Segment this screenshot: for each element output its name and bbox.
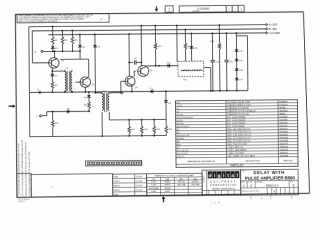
svg-text:DESCRIPTION: DESCRIPTION <box>245 161 260 163</box>
svg-text:B560-0-1: B560-0-1 <box>266 183 279 187</box>
svg-text:DEC-36: DEC-36 <box>178 181 185 183</box>
svg-text:C,N GND: C,N GND <box>269 31 280 35</box>
svg-text:PRINTED CIRCUIT REV.: PRINTED CIRCUIT REV. <box>242 191 261 193</box>
svg-text:DEC: DEC <box>179 179 184 181</box>
svg-text:C13-C5: C13-C5 <box>177 156 185 158</box>
svg-text:1000007: 1000007 <box>280 152 289 154</box>
svg-text:1001023: 1001023 <box>280 149 289 151</box>
svg-text:5-18-64: 5-18-64 <box>136 176 143 178</box>
svg-text:3609B: 3609B <box>279 107 286 109</box>
svg-text:D-662: D-662 <box>151 191 156 193</box>
svg-text:ISS'D: ISS'D <box>114 194 120 196</box>
svg-text:D-664: D-664 <box>151 182 156 184</box>
svg-text:REPRODUCED OR COPIED OR USED I: REPRODUCED OR COPIED OR USED IN WHOLE OR… <box>24 141 27 195</box>
svg-text:3686Q: 3686Q <box>279 113 286 115</box>
svg-text:2: 2 <box>61 89 62 91</box>
svg-text:0100377: 0100377 <box>280 143 289 145</box>
svg-text:DIO. D-003 IN3653: DIO. D-003 IN3653 <box>227 120 246 122</box>
svg-text:J: J <box>124 91 125 93</box>
svg-text:SIZE: SIZE <box>241 182 244 184</box>
svg-text:REFERENCE DESIGNATION: REFERENCE DESIGNATION <box>187 160 215 163</box>
svg-text:5-19-64: 5-19-64 <box>136 181 143 183</box>
svg-text:l: l <box>237 173 238 179</box>
svg-text:0100350: 0100350 <box>279 134 288 136</box>
svg-text:R3,R5,R7,R9: R3,R5,R7,R9 <box>177 135 191 137</box>
svg-text:COND. MFD .01: COND. MFD .01 <box>227 147 244 149</box>
svg-text:D11,D14-D17: D11,D14-D17 <box>177 126 191 128</box>
svg-text:C6,C14-C15: C6,C14-C15 <box>177 150 190 152</box>
svg-text:PULSE AMPLIFIER B560: PULSE AMPLIFIER B560 <box>245 175 296 180</box>
svg-text:DEC FORM NO: DEC FORM NO <box>18 199 30 201</box>
svg-text:RES. 7500 5% 1/4W: RES. 7500 5% 1/4W <box>227 144 248 146</box>
svg-text:COND. 0680 MMFD: COND. 0680 MMFD <box>227 150 247 152</box>
svg-text:0100318: 0100318 <box>280 137 289 139</box>
svg-text:DRB 102: DRB 102 <box>18 201 25 203</box>
svg-text:RES. 112 1/2W 10% CC: RES. 112 1/2W 10% CC <box>227 138 251 140</box>
svg-text:RES. 470 1/4W 10% CC: RES. 470 1/4W 10% CC <box>227 141 251 143</box>
svg-text:DIO. D-664 IN3606: DIO. D-664 IN3606 <box>227 117 246 119</box>
svg-text:1: 1 <box>235 9 236 11</box>
svg-text:NUMBER: NUMBER <box>256 182 263 184</box>
svg-text:RES. 3.3K 1/4W 10% CC: RES. 3.3K 1/4W 10% CC <box>227 135 252 137</box>
svg-text:2N1754: 2N1754 <box>192 181 198 183</box>
svg-text:DEC-36A: DEC-36A <box>177 183 186 186</box>
svg-text:DIO. D-662 IN645: DIO. D-662 IN645 <box>227 126 245 128</box>
svg-text:i: i <box>214 173 215 179</box>
svg-text:5-20-64: 5-20-64 <box>136 185 143 187</box>
svg-text:IN3653: IN3653 <box>164 185 170 187</box>
svg-text:DEC3009A: DEC3009A <box>149 187 159 190</box>
svg-text:R4,R12: R4,R12 <box>177 138 185 140</box>
svg-text:REV.: REV. <box>290 181 294 183</box>
svg-text:0100298: 0100298 <box>280 140 289 142</box>
svg-text:IN3606: IN3606 <box>164 182 170 184</box>
svg-text:CAP. 22MFD 35V 20% TANT.: CAP. 22MFD 35V 20% TANT. <box>227 154 255 157</box>
svg-text:THE BASIS FOR MANUFACTURE OR S: THE BASIS FOR MANUFACTURE OR SALE OF ITE… <box>28 151 31 196</box>
svg-text:1105305: 1105305 <box>279 116 288 118</box>
svg-text:PART NO.: PART NO. <box>283 159 293 162</box>
svg-text:CODE: CODE <box>248 182 252 184</box>
svg-text:1909387: 1909387 <box>279 101 288 103</box>
svg-text:1000048: 1000048 <box>280 155 289 157</box>
svg-text:D1,D2,D3,D4-D8: D1,D2,D3,D4-D8 <box>177 117 194 119</box>
svg-text:d: d <box>208 173 211 179</box>
svg-text:ERTY OF DIGITAL EQUIPMENT CORP: ERTY OF DIGITAL EQUIPMENT CORPORATION AN… <box>21 139 24 196</box>
svg-text:THIS DRAWING AND SPECIFICATION: THIS DRAWING AND SPECIFICATIONS HEREIN A… <box>18 142 21 195</box>
svg-text:i: i <box>223 173 224 179</box>
svg-text:COND. 0.01 MFD: COND. 0.01 MFD <box>227 153 244 155</box>
svg-text:D9,D10: D9,D10 <box>177 123 185 125</box>
svg-text:0100365: 0100365 <box>279 131 288 133</box>
svg-text:RES. 1.5K 1/4W 10% CC: RES. 1.5K 1/4W 10% CC <box>227 132 252 134</box>
svg-text:1: 1 <box>261 196 263 200</box>
svg-text:1105744: 1105744 <box>279 122 288 124</box>
svg-text:TRANSISTOR DEC-36: TRANSISTOR DEC-36 <box>227 113 250 116</box>
svg-text:CORPORATION: CORPORATION <box>210 184 237 187</box>
svg-text:PARTS LIST: PARTS LIST <box>231 164 245 167</box>
svg-text:g: g <box>218 174 221 179</box>
svg-text:TRANSFORMER T-2032: TRANSFORMER T-2032 <box>227 104 252 107</box>
svg-text:PROD: PROD <box>114 190 120 192</box>
svg-text:SCHEM: SCHEM <box>203 176 205 183</box>
svg-text:D-003: D-003 <box>151 185 156 187</box>
svg-text:TRANSISTOR 2N3639: TRANSISTOR 2N3639 <box>227 107 250 110</box>
svg-text:A +10V: A +10V <box>269 23 278 27</box>
svg-text:A: A <box>243 184 245 188</box>
svg-text:TRANSISTOR DEC3009A-2N: TRANSISTOR DEC3009A-2N <box>227 109 256 112</box>
svg-text:2-S-B560: 2-S-B560 <box>197 7 210 11</box>
svg-text:ARE B 5 6 0 DIGITAL EQUIPMEN: ARE B 5 6 0 DIGITAL EQUIPMENT CORPORATIO… <box>19 20 60 23</box>
svg-text:B -15V: B -15V <box>269 27 277 31</box>
svg-text:EQUIPMENT: EQUIPMENT <box>210 181 236 183</box>
svg-text:DIO. D-007 IN3653: DIO. D-007 IN3653 <box>227 123 246 125</box>
svg-text:0100227: 0100227 <box>279 128 288 130</box>
svg-text:CHK'D: CHK'D <box>114 181 121 183</box>
svg-text:NF: NF <box>168 11 170 13</box>
svg-text:1105306: 1105306 <box>279 119 288 121</box>
svg-text:1105317: 1105317 <box>279 125 288 127</box>
svg-text:2N3009: 2N3009 <box>164 188 170 190</box>
svg-text:6: 6 <box>75 89 76 91</box>
svg-text:T1,T2: T1,T2 <box>176 105 182 107</box>
svg-text:a: a <box>231 174 234 179</box>
svg-text:DEC: DEC <box>152 179 157 181</box>
svg-text:1: 1 <box>61 72 62 74</box>
svg-text:D5,D6: D5,D6 <box>177 120 184 122</box>
svg-text:5: 5 <box>75 72 76 74</box>
svg-text:D: D <box>250 184 252 188</box>
svg-text:Q3,Q4: Q3,Q4 <box>176 114 183 116</box>
svg-text:5-21-64: 5-21-64 <box>136 190 143 192</box>
svg-text:IN645: IN645 <box>165 191 170 193</box>
svg-text:500 NSEC DELAY LINE: 500 NSEC DELAY LINE <box>227 101 250 104</box>
svg-text:1001610: 1001610 <box>280 146 289 148</box>
svg-text:TITLE: TITLE <box>241 171 245 173</box>
svg-text:ENG'D: ENG'D <box>114 185 121 187</box>
svg-text:7 . 1 . A: 7 . 1 . A <box>211 200 220 204</box>
svg-text:DRN: DRN <box>114 176 119 178</box>
svg-text:2N1754A: 2N1754A <box>191 183 199 186</box>
svg-text:C1-C7,C10: C1-C7,C10 <box>177 153 189 155</box>
svg-text:RES. 160 1/4W 10% CC: RES. 160 1/4W 10% CC <box>227 129 251 131</box>
svg-text:3609B20: 3609B20 <box>279 110 288 112</box>
svg-text:X: X <box>273 189 275 193</box>
svg-text:1202244: 1202244 <box>279 104 288 106</box>
